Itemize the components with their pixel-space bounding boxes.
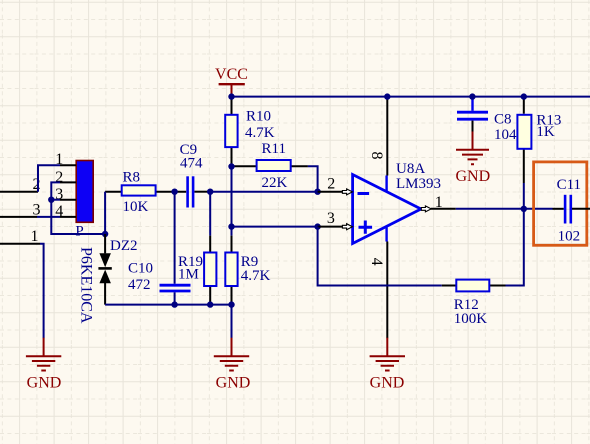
- svg-text:2: 2: [327, 176, 335, 193]
- svg-text:C11: C11: [557, 177, 581, 193]
- highlight box C11: [534, 162, 587, 245]
- wire net 1 left: [0, 228, 40, 245]
- resistor R13: [517, 97, 561, 209]
- wire VCC rail: [232, 96, 590, 98]
- svg-text:R11: R11: [262, 141, 286, 157]
- svg-text:GND: GND: [455, 168, 490, 185]
- node output R13: [521, 206, 527, 212]
- capacitor C8: [457, 98, 517, 143]
- node C10 top: [171, 189, 177, 195]
- svg-text:GND: GND: [216, 375, 251, 392]
- ground GND3: [370, 338, 405, 392]
- wire pin3 row: [232, 226, 318, 228]
- svg-text:10K: 10K: [123, 199, 149, 215]
- svg-text:LM393: LM393: [396, 176, 441, 192]
- wire net 2 left: [0, 176, 41, 193]
- svg-text:VCC: VCC: [215, 66, 248, 83]
- wire net1 down to gnd: [40, 244, 44, 339]
- pin 1 of U8A: [421, 194, 456, 212]
- pin 3: [55, 186, 76, 203]
- diode DZ2: [78, 234, 138, 324]
- svg-text:4: 4: [368, 258, 385, 266]
- VCC power symbol: [215, 66, 248, 97]
- pin 2: [55, 169, 76, 186]
- wire feedback right: [506, 209, 524, 286]
- svg-text:C10: C10: [128, 261, 153, 277]
- pin 4: [55, 203, 76, 220]
- resistor R9: [225, 236, 270, 305]
- svg-text:474: 474: [180, 156, 203, 172]
- node R10 bottom: [228, 163, 234, 169]
- capacitor C9: [180, 142, 211, 208]
- node bottom R9: [228, 301, 234, 307]
- node pin3 junction: [48, 197, 54, 203]
- pin 4 of U8A: [368, 242, 388, 339]
- svg-text:1M: 1M: [178, 267, 199, 283]
- svg-text:100K: 100K: [454, 311, 488, 327]
- ground GND4: [455, 132, 490, 186]
- node rail R10: [228, 93, 234, 99]
- svg-text:GND: GND: [27, 375, 62, 392]
- svg-text:104: 104: [494, 127, 517, 143]
- svg-text:P: P: [75, 224, 83, 240]
- pin 3 of U8A: [318, 210, 353, 230]
- wire R11 to pin2: [308, 166, 318, 192]
- svg-text:DZ2: DZ2: [110, 238, 138, 254]
- svg-text:8: 8: [368, 152, 385, 160]
- wire to pin1: [38, 165, 60, 192]
- resistor R10: [225, 97, 275, 167]
- resistor R11: [234, 141, 308, 191]
- node rail R13: [521, 93, 527, 99]
- svg-text:GND: GND: [370, 375, 405, 392]
- svg-text:C8: C8: [494, 112, 512, 128]
- ground GND1: [26, 338, 61, 392]
- node bottom C10: [171, 301, 177, 307]
- node P junction: [102, 231, 108, 237]
- svg-text:2: 2: [33, 176, 41, 193]
- svg-text:R10: R10: [246, 109, 271, 125]
- node rail C8: [469, 93, 475, 99]
- node R9 top: [228, 223, 234, 229]
- resistor R8: [105, 170, 186, 216]
- capacitor C11: [553, 177, 590, 245]
- svg-text:P6KE10CA: P6KE10CA: [78, 247, 95, 324]
- wire to pin4: [37, 216, 60, 218]
- node pin3: [314, 223, 320, 229]
- svg-text:3: 3: [33, 201, 41, 218]
- svg-text:22K: 22K: [262, 175, 288, 191]
- capacitor C10: [128, 192, 191, 305]
- svg-text:R8: R8: [123, 170, 141, 186]
- svg-text:4.7K: 4.7K: [245, 125, 275, 141]
- wire center vertical node: [231, 167, 233, 236]
- connector P: [75, 161, 93, 240]
- wire to GND2: [231, 305, 233, 339]
- wire output row: [456, 208, 553, 210]
- pin 8 of U8A: [368, 97, 388, 176]
- svg-text:472: 472: [128, 277, 151, 293]
- svg-text:102: 102: [558, 229, 581, 245]
- pin 2 of U8A: [318, 176, 353, 195]
- resistor R12: [442, 280, 506, 327]
- wire pin2 row: [210, 191, 317, 193]
- op-amp U8A: [353, 161, 441, 244]
- node rail pin8: [384, 93, 390, 99]
- node pin2 R11: [314, 189, 320, 195]
- wire feedback: [318, 227, 442, 286]
- svg-text:4.7K: 4.7K: [241, 268, 271, 284]
- svg-text:U8A: U8A: [396, 161, 425, 177]
- node R19 top: [207, 189, 213, 195]
- node bottom R19: [207, 301, 213, 307]
- svg-text:1: 1: [435, 194, 443, 211]
- svg-text:3: 3: [327, 210, 335, 227]
- wire net 3 left: [0, 201, 41, 218]
- wire DZ2 top: [104, 192, 106, 234]
- resistor R19: [178, 192, 216, 305]
- wire bottom row: [105, 304, 231, 306]
- svg-text:1K: 1K: [536, 124, 555, 140]
- pin 1: [55, 151, 76, 168]
- svg-text:1: 1: [31, 228, 39, 245]
- ground GND2: [214, 338, 251, 392]
- wire pin2 pin3 to P bus: [51, 182, 105, 234]
